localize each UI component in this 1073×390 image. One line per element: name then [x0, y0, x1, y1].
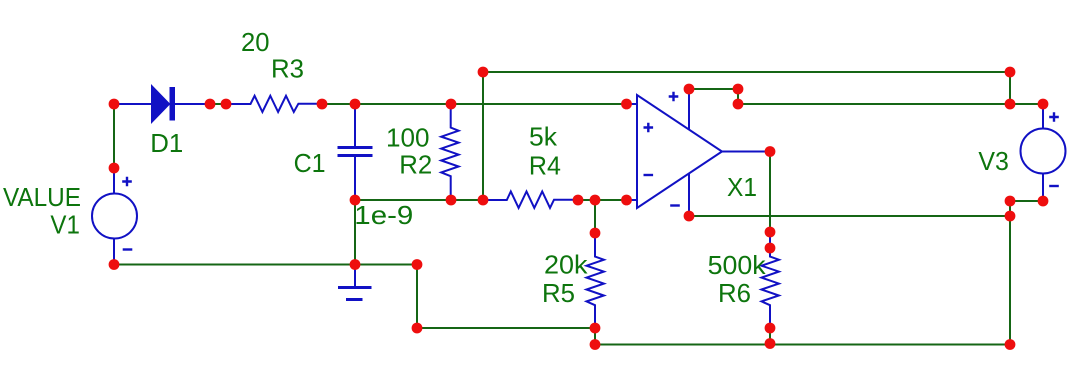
junction C1 bottom pin: [350, 195, 361, 206]
wire V1 top: [113, 104, 115, 168]
junction R2 top pin: [446, 99, 457, 110]
wire x1010 top: [1009, 72, 1011, 104]
junction R5 top pin: [590, 228, 601, 239]
svg-text:R3: R3: [271, 54, 304, 84]
junction supply wire corner bottom: [733, 99, 744, 110]
junction V3 minus wire corner: [1005, 196, 1016, 207]
junction R6 at bottom rail: [765, 338, 776, 349]
junction ground net corner: [412, 259, 423, 270]
wire y200 right stub: [578, 199, 626, 201]
junction R3 right pin: [317, 99, 328, 110]
junction right rail to V3: [1005, 99, 1016, 110]
wire y104 right: [738, 103, 1010, 105]
junction op-amp output: [765, 146, 776, 157]
svg-text:V1: V1: [50, 210, 80, 240]
svg-text:VALUE: VALUE: [3, 182, 81, 212]
junction R4 left pin: [478, 195, 489, 206]
svg-text:R2: R2: [399, 150, 432, 180]
wire C1 to ground: [354, 200, 356, 265]
svg-text:20: 20: [241, 27, 270, 57]
junction R5 bottom pin: [590, 323, 601, 334]
junction V1 minus pin: [109, 259, 120, 270]
wire top rail net VCC: [483, 71, 1010, 73]
svg-text:20k: 20k: [544, 250, 589, 280]
wire to V3 top: [1010, 103, 1043, 105]
junction wire end on R6 lead: [765, 243, 776, 254]
wire x1010 down: [1009, 201, 1011, 345]
wire V3 bottom: [1010, 200, 1043, 202]
svg-text:100: 100: [386, 123, 430, 153]
junction feedback node: [590, 195, 601, 206]
junction lower-left corner: [412, 323, 423, 334]
wire R6 bottom stub: [769, 328, 771, 345]
junction D1 anode / V1 top net: [109, 99, 120, 110]
resistor R3: [227, 96, 322, 112]
junction ground net at C1 branch: [350, 259, 361, 270]
junction op-amp V- supply pin: [684, 211, 695, 222]
resistor R2: [441, 104, 458, 200]
wire stub D1-R3: [210, 103, 226, 105]
wire x417 down: [416, 265, 418, 329]
wire y328: [417, 327, 595, 329]
junction R4 right pin: [573, 195, 584, 206]
op-amp X1: [627, 89, 771, 216]
junction R2 bottom pin: [446, 195, 457, 206]
wire output down: [769, 152, 771, 233]
svg-text:R6: R6: [718, 278, 751, 308]
resistor R5: [587, 233, 604, 328]
junction V3 minus pin: [1038, 196, 1049, 207]
svg-text:R4: R4: [529, 150, 561, 180]
svg-text:500k: 500k: [708, 250, 767, 280]
wire y200 left: [355, 199, 483, 201]
wire mid rail y104: [322, 103, 626, 105]
wire supply stub: [737, 89, 739, 104]
svg-text:D1: D1: [150, 128, 183, 158]
junction V1 plus pin: [109, 163, 120, 174]
svg-text:5k: 5k: [529, 122, 558, 152]
junction supply wire corner top: [733, 84, 744, 95]
junction V3 plus pin: [1038, 99, 1049, 110]
wire bottom rail y344: [595, 344, 1010, 346]
wire bottom supply y216: [689, 215, 1010, 217]
junction V- rail right end: [1005, 211, 1016, 222]
voltage source V1: [92, 168, 137, 265]
junction R6 bottom pin: [765, 323, 776, 334]
junction top rail left: [478, 67, 489, 78]
wire vertical x483: [482, 72, 484, 200]
resistor R4: [483, 192, 578, 208]
junction C1 top pin: [350, 99, 361, 110]
wire R5 bottom stub: [594, 328, 596, 345]
junction D1 cathode: [205, 99, 216, 110]
wire supply top: [689, 88, 738, 90]
svg-text:V3: V3: [978, 146, 1009, 176]
capacitor C1: [338, 104, 373, 200]
junction R3 left pin: [221, 99, 232, 110]
svg-text:R5: R5: [542, 278, 575, 308]
voltage source V3: [1021, 104, 1066, 201]
junction top rail right: [1005, 67, 1016, 78]
resistor R6: [762, 233, 779, 328]
junction bottom rail right corner: [1005, 339, 1016, 350]
wire ground row y264: [114, 264, 417, 266]
svg-text:C1: C1: [294, 148, 326, 178]
junction bottom rail left: [590, 339, 601, 350]
wire x595 down: [594, 200, 596, 233]
junction op-amp inverting input: [621, 195, 632, 206]
junction op-amp V+ supply pin: [684, 84, 695, 95]
diode D1: [114, 87, 210, 122]
ground: [338, 265, 372, 300]
junction output wire end at R6: [765, 227, 776, 238]
junction op-amp noninverting input: [621, 99, 632, 110]
svg-text:X1: X1: [727, 172, 757, 202]
svg-text:1e-9: 1e-9: [354, 200, 413, 230]
